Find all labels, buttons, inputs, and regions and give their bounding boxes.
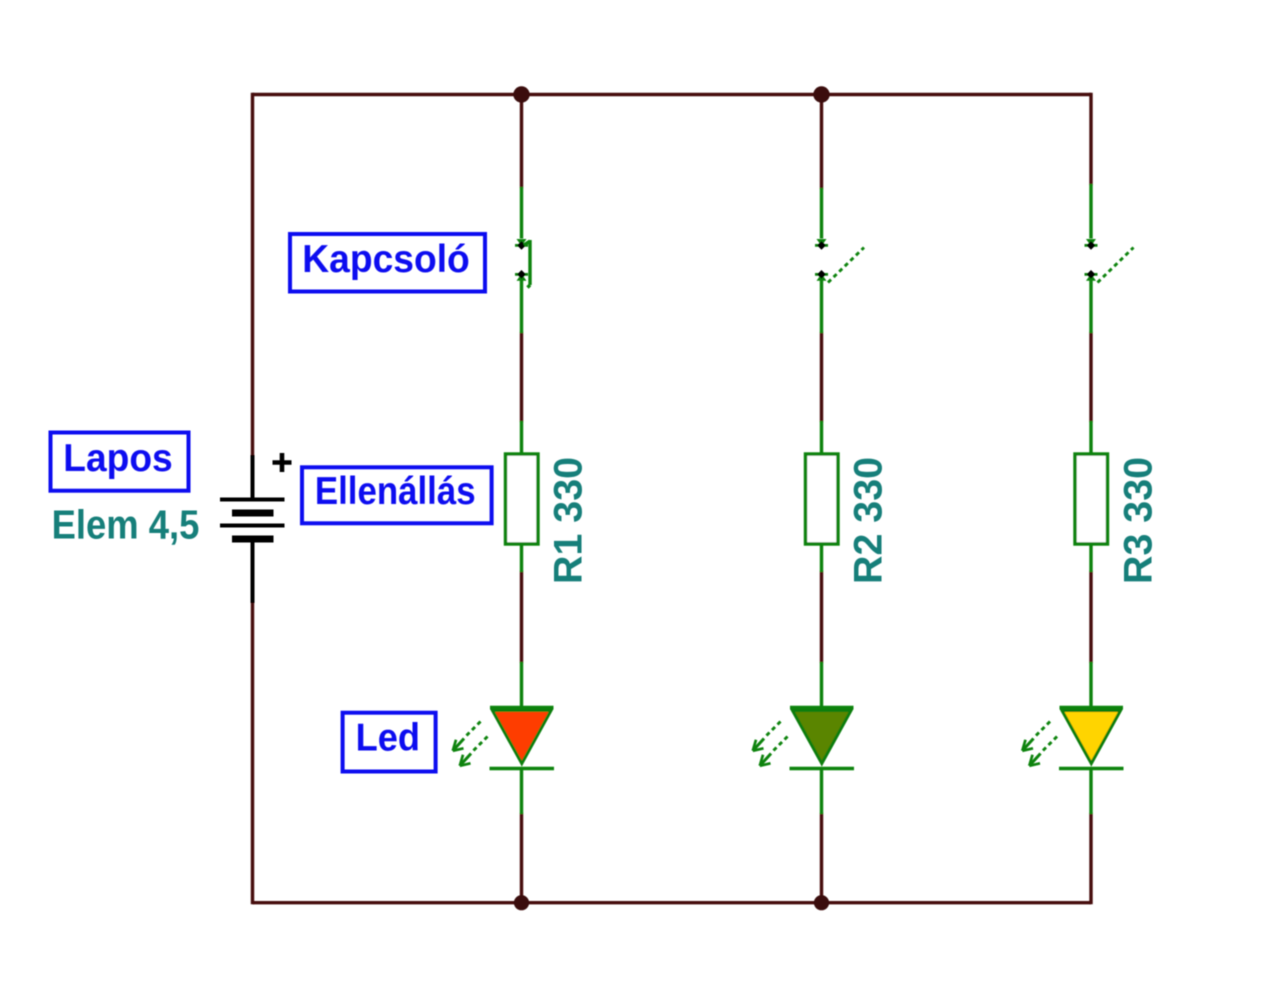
svg-text:R2 330: R2 330 xyxy=(847,457,891,584)
junction top branch1 xyxy=(513,86,529,102)
wire branch3 maroon segments (right rail) xyxy=(1089,93,1092,905)
svg-text:Ellenállás: Ellenállás xyxy=(315,470,476,513)
label box Ellenallas xyxy=(302,467,492,523)
battery B1 (Lapos Elem 4,5V) xyxy=(220,453,292,603)
resistor R1 xyxy=(506,454,539,544)
wire branch2 green segments xyxy=(820,188,823,814)
wire branch1 maroon segments xyxy=(520,94,523,904)
wire branch2 maroon segments xyxy=(820,94,823,904)
wire left rail lower (battery - to bottom) xyxy=(251,602,254,904)
svg-text:Elem 4,5: Elem 4,5 xyxy=(52,502,200,548)
junction bottom branch2 xyxy=(814,895,829,910)
switch SW1 (closed) xyxy=(515,239,530,288)
junction top branch2 xyxy=(813,86,829,102)
resistor R3 xyxy=(1075,454,1108,544)
svg-text:R1 330: R1 330 xyxy=(547,457,591,584)
LED D3 (yellow) xyxy=(1022,708,1123,769)
resistor R2 xyxy=(806,454,839,544)
label box Led xyxy=(343,713,436,772)
wire branch3 green segments xyxy=(1089,184,1092,814)
wire bottom rail xyxy=(253,901,1092,904)
wire left rail upper (to battery +) xyxy=(251,93,254,457)
svg-text:R3 330: R3 330 xyxy=(1117,457,1161,584)
label box Lapos xyxy=(51,433,189,491)
junction bottom branch1 xyxy=(514,895,529,910)
LED D2 (dark green) xyxy=(753,708,854,769)
switch SW2 (open) xyxy=(815,239,864,283)
svg-text:Led: Led xyxy=(356,717,420,760)
LED D1 (red) xyxy=(453,708,554,769)
wire branch1 green segments xyxy=(520,187,523,814)
svg-text:Lapos: Lapos xyxy=(63,437,172,480)
label box Kapcsolo xyxy=(290,234,485,292)
svg-text:Kapcsoló: Kapcsoló xyxy=(302,238,470,281)
wire top rail xyxy=(253,93,1092,96)
switch SW3 (open) xyxy=(1085,239,1134,283)
